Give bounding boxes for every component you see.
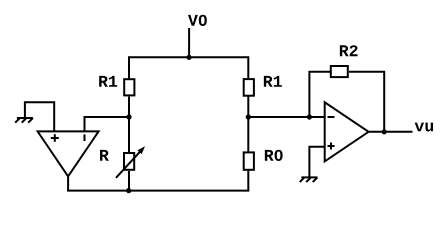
wire variable resistor to bottom bus xyxy=(128,171,130,191)
resistor R0 xyxy=(244,152,254,169)
wire node A to variable resistor xyxy=(128,117,130,152)
label R xyxy=(100,150,109,161)
junction dot feedback tap xyxy=(307,114,312,119)
resistor R2 xyxy=(331,66,348,77)
wire left branch upper xyxy=(128,56,130,78)
wire U2 output xyxy=(369,131,413,133)
label R1 (right) xyxy=(264,76,282,87)
wire top bus xyxy=(129,56,248,58)
label R2 xyxy=(340,45,358,56)
resistor R1 (left) xyxy=(124,79,134,95)
wire right branch mid xyxy=(247,97,249,118)
wire right node to R0 xyxy=(247,117,249,151)
junction dot bottom node xyxy=(126,188,131,193)
wire feedback left rise xyxy=(309,72,330,117)
op-amp U1 (points down) xyxy=(38,131,99,176)
junction dot right node xyxy=(246,114,251,119)
wire U1 noninverting input to ground xyxy=(25,102,54,131)
wire R0 to bottom bus xyxy=(247,170,249,191)
junction dot top node xyxy=(187,55,192,60)
wire bottom bus xyxy=(67,190,248,192)
ground (left) xyxy=(15,118,33,123)
wire V0 stem xyxy=(188,28,190,57)
wire right branch upper xyxy=(247,56,249,78)
net label V0 xyxy=(188,15,207,26)
junction dot output node xyxy=(382,129,387,134)
wire right node to U2 inverting input xyxy=(248,116,324,118)
wire feedback right drop xyxy=(349,72,384,132)
resistor R1 (right) xyxy=(244,79,254,96)
label R0 xyxy=(265,150,283,161)
wire U1 output drop xyxy=(67,176,69,190)
op-amp U2 (points right) xyxy=(325,102,369,161)
variable resistor R xyxy=(116,146,145,178)
junction dot node A xyxy=(126,114,131,119)
wire U2 noninverting input to ground xyxy=(309,147,324,177)
wire left branch mid xyxy=(128,97,130,117)
wire node A to U1 inverting input xyxy=(85,117,130,131)
label R1 (left) xyxy=(99,76,117,87)
net label vu xyxy=(415,123,433,132)
ground (right) xyxy=(300,177,318,182)
